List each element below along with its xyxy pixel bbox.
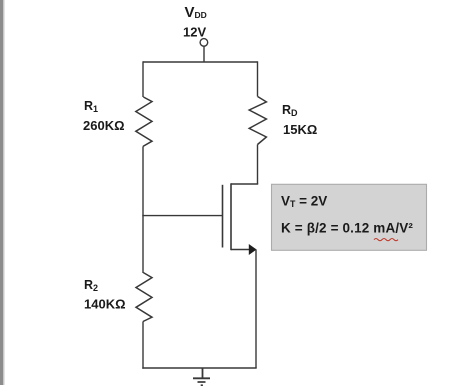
- svg-text:K = β/2 = 0.12 mA/V²: K = β/2 = 0.12 mA/V²: [281, 221, 413, 236]
- left page border strip: [0, 0, 3, 385]
- svg-text:140KΩ: 140KΩ: [84, 297, 126, 312]
- resistor RD: [249, 97, 266, 145]
- svg-text:RD: RD: [282, 103, 298, 118]
- wire left branch upper: [142, 61, 144, 97]
- wire source horizontal: [231, 249, 250, 251]
- wire left branch middle: [142, 146, 144, 273]
- resistor R1: [136, 97, 152, 146]
- transistor M1 gate bar: [222, 185, 224, 248]
- wire drain vertical: [257, 145, 259, 185]
- red squiggle under mA: [374, 239, 398, 241]
- wire bottom rail: [142, 367, 256, 369]
- wire drain horizontal: [231, 183, 258, 185]
- wire top rail: [143, 61, 258, 63]
- svg-text:VT = 2V: VT = 2V: [281, 193, 327, 209]
- svg-text:R1: R1: [84, 99, 98, 114]
- wire gate: [142, 215, 222, 217]
- svg-text:12V: 12V: [183, 25, 206, 40]
- svg-text:15KΩ: 15KΩ: [283, 122, 317, 137]
- wire left branch lower: [142, 322, 144, 369]
- ground: [193, 368, 210, 385]
- annotation box: [272, 184, 427, 250]
- wire right branch upper: [257, 61, 259, 96]
- source arrowhead: [249, 244, 257, 255]
- svg-text:VDD: VDD: [185, 4, 207, 21]
- wire source vertical: [255, 250, 257, 369]
- resistor R2: [136, 273, 152, 322]
- svg-text:260KΩ: 260KΩ: [83, 118, 125, 133]
- transistor M1 channel bar: [230, 183, 232, 250]
- supply terminal circle: [200, 39, 208, 47]
- wire supply stub: [203, 46, 205, 62]
- svg-text:R2: R2: [84, 278, 98, 293]
